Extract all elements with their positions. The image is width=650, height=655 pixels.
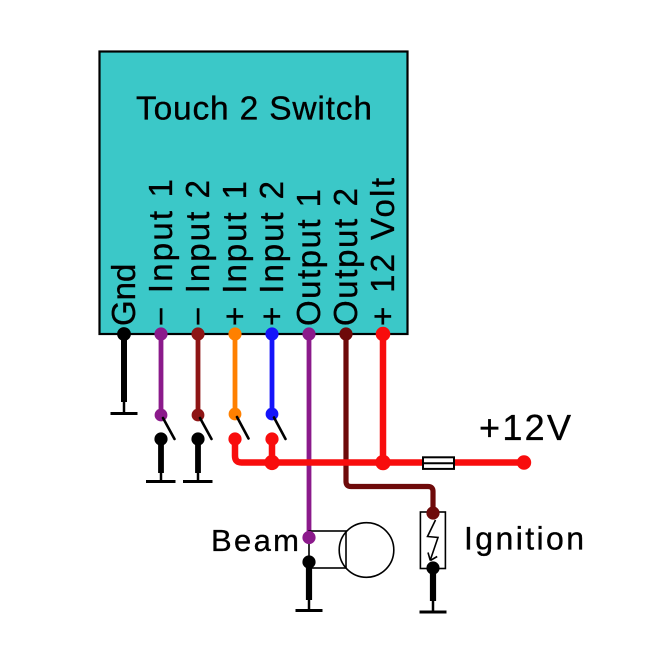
ground symbol at coil (420, 599, 447, 612)
ground symbol at lamp (296, 598, 323, 611)
node: coil to ground (black dot) (426, 561, 439, 574)
switch S1 bottom contact dot (154, 432, 167, 445)
wire: Output 1 purple to Beam lamp (307, 334, 312, 538)
node: lamp to ground (black dot) (302, 555, 315, 568)
ground symbol at S1 (146, 471, 176, 482)
switch S1 lever (163, 418, 175, 439)
pin dot - Input 2 (191, 327, 204, 340)
wire: red bus from S3 contact (235, 437, 524, 463)
node: Output 2 to coil (maroon dot) (426, 506, 439, 519)
pin dot - Input 1 (154, 327, 167, 340)
fuse F1 (423, 457, 454, 469)
wire: S4 contact to red bus (269, 439, 276, 463)
node: Output 1 to lamp (purple dot) (302, 531, 315, 544)
wire: S1 to ground (158, 439, 164, 473)
switch S3 lever (237, 417, 249, 439)
wire: + 12 Volt red (380, 334, 387, 463)
lamp base rectangle (Beam) (309, 531, 346, 568)
switch S4 lever (274, 418, 286, 440)
pin dot + Input 1 (228, 327, 241, 340)
switch S3 contact dot (top, orange) (229, 408, 242, 421)
switch S2 contact dot (top, dark red) (192, 409, 205, 422)
svg-text:+ Input 1: + Input 1 (216, 181, 253, 326)
switch S3 bottom contact dot (red) (228, 432, 241, 445)
pin dot Gnd (117, 327, 131, 341)
junction: red bus / S4 branch (264, 455, 279, 470)
svg-text:− Input 2: − Input 2 (179, 180, 216, 326)
switch S1 contact dot (top, purple) (155, 409, 168, 422)
svg-text:Gnd: Gnd (105, 264, 142, 326)
junction: red bus / +12 Volt pin (375, 455, 390, 470)
switch S4 contact dot (top, blue) (266, 408, 279, 421)
wire: coil to ground (430, 568, 436, 601)
svg-text:Beam: Beam (211, 523, 299, 558)
wire: lamp to ground (306, 562, 312, 600)
terminal dot +12V supply (517, 455, 531, 469)
svg-text:− Input 1: − Input 1 (142, 179, 179, 326)
wire: Output 2 dark maroon to ignition coil (346, 334, 433, 513)
wire: + Input 2 blue (270, 334, 275, 414)
switch S2 lever (200, 418, 212, 439)
wire: - Input 1 purple (159, 334, 164, 415)
pin dot Output 1 (302, 327, 315, 340)
switch S4 bottom contact dot (red) (265, 432, 278, 445)
svg-text:Output 2: Output 2 (327, 188, 364, 326)
wire: - Input 2 dark red (196, 334, 201, 415)
svg-text:Touch 2 Switch: Touch 2 Switch (136, 91, 372, 128)
switch S2 bottom contact dot (191, 432, 204, 445)
ground symbol at Gnd pin (111, 400, 138, 414)
pin dot + Input 2 (265, 327, 278, 340)
module U1 Touch 2 Switch body (100, 52, 408, 335)
svg-text:Output 1: Output 1 (290, 189, 327, 326)
svg-text:+12V: +12V (479, 407, 571, 448)
pin dot Output 2 (339, 327, 352, 340)
pin dot + 12 Volt (376, 327, 391, 342)
wire: S2 to ground (195, 439, 201, 473)
wire: Gnd black (121, 334, 127, 402)
svg-text:+ Input 2: + Input 2 (253, 181, 290, 326)
ignition coil L1 body (420, 512, 445, 569)
wire: + Input 1 orange (233, 334, 238, 414)
ignition coil spark bolt (428, 520, 439, 561)
lamp bulb circle (339, 523, 394, 578)
svg-text:+ 12 Volt: + 12 Volt (364, 178, 401, 326)
ground symbol at S2 (183, 471, 213, 482)
